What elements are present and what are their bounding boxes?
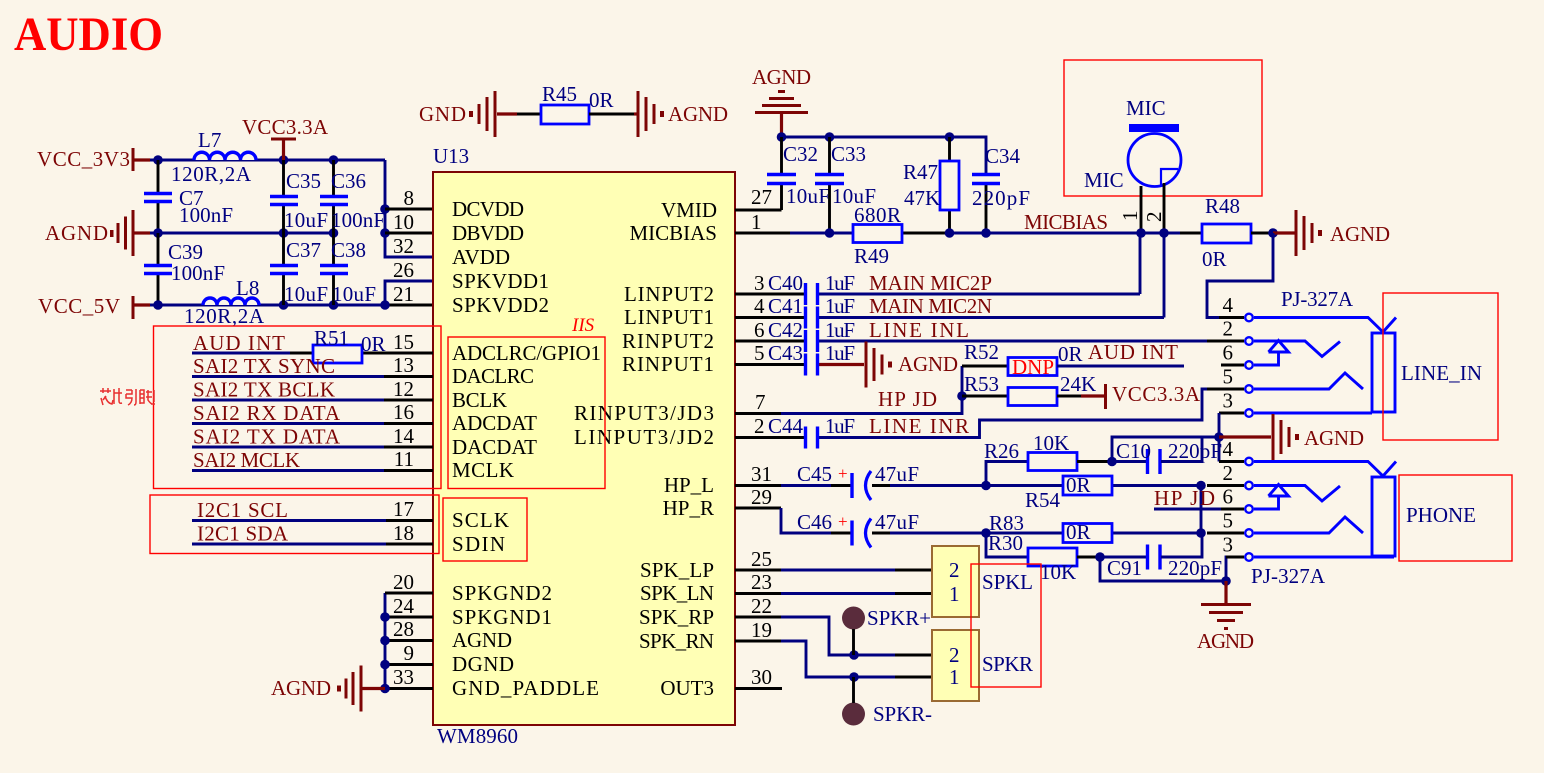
pin GND_PADDLE 33 [393,665,599,700]
pin HP_L 31 [664,462,772,497]
svg-text:0R: 0R [1058,342,1083,366]
svg-text:AGND: AGND [1197,629,1254,653]
capacitor C38 [320,233,376,306]
wire R54 node to R83 node [1200,486,1203,534]
node pin9 [380,660,390,670]
svg-text:ADCLRC/GPIO1: ADCLRC/GPIO1 [452,341,601,365]
pin MICBIAS 1 [629,210,761,245]
node MICBIAS mic1 [1136,228,1146,238]
wire R45 to AGND [589,113,634,116]
node top rail C36 [329,155,339,165]
I2C1 group red box [150,495,439,554]
svg-text:10K: 10K [1033,431,1069,455]
svg-text:2: 2 [754,414,765,438]
power port AGND left [45,210,150,256]
svg-text:SAI2 TX BCLK: SAI2 TX BCLK [193,378,335,402]
svg-text:24: 24 [393,594,415,618]
svg-text:RINPUT1: RINPUT1 [622,352,714,376]
node MICBIAS C33 [825,228,835,238]
wire pin 4 LINPUT1 row [735,233,1164,318]
pin AGND 28 [393,617,512,652]
svg-text:HP_R: HP_R [663,496,714,520]
pin SDIN 18 [393,521,505,556]
svg-text:1uF: 1uF [825,294,855,318]
capacitor C46 47uF [797,510,919,548]
svg-text:SPKR+: SPKR+ [867,606,931,630]
svg-text:LINPUT2: LINPUT2 [624,282,714,306]
svg-text:DCVDD: DCVDD [452,197,524,221]
capacitor C34 [972,144,1030,233]
svg-text:7: 7 [755,390,766,414]
wire pin 23 SPK_LN row [735,592,932,595]
power port AGND at C43 [866,342,958,388]
svg-text:AUD INT: AUD INT [193,331,285,355]
wire R48 node to LINE_IN pin4 [1207,233,1273,318]
node pin33 [380,684,390,694]
svg-text:VCC3.3A: VCC3.3A [1112,382,1201,406]
resistor R30 10K [986,531,1100,584]
SPK red box [971,564,1041,687]
capacitor C7 [144,160,233,233]
svg-text:C37: C37 [286,238,321,262]
wire R26 node up to AGND rail [1112,437,1219,462]
svg-text:R30: R30 [988,531,1023,555]
svg-text:AGND: AGND [1330,222,1390,246]
label HP_JD at PHONE pin6 [1154,486,1221,510]
svg-text:2: 2 [949,558,960,582]
svg-text:47uF: 47uF [875,462,919,486]
svg-text:R47: R47 [903,160,938,184]
pin VMID 27 [661,185,772,222]
jack pin 2 [1207,317,1253,345]
pin SPK_LP 25 [640,547,772,582]
wire SAI2_RX_DATA 16 [192,401,433,425]
pin LINPUT1 4 [624,294,765,329]
svg-text:R49: R49 [854,244,889,268]
svg-text:16: 16 [393,400,414,424]
node R54 out [1196,481,1206,491]
node vert pin10 [380,228,390,238]
resistor R51 0R [313,326,386,363]
svg-text:30: 30 [751,665,772,689]
resistor R83 0R [989,511,1112,544]
svg-text:R51: R51 [314,326,349,350]
svg-text:29: 29 [751,485,772,509]
power port AGND mid right [1219,414,1364,460]
svg-text:120R,2A: 120R,2A [171,162,252,186]
wire pin 5 RINPUT1 row [735,363,864,366]
wire pin 30 OUT3 stub [735,687,782,690]
resistor R52 0R DNP [962,340,1083,379]
svg-text:SAI2 RX DATA: SAI2 RX DATA [193,401,341,425]
node MICBIAS mic2 [1159,228,1169,238]
svg-text:31: 31 [751,462,772,486]
svg-text:22: 22 [751,594,772,618]
mic pin 2 [1142,183,1166,233]
svg-text:3: 3 [1223,533,1234,557]
svg-text:+: + [838,464,848,483]
svg-text:10: 10 [393,210,414,234]
svg-text:SPK_LN: SPK_LN [640,581,714,605]
node mid rail C35/C37 [279,228,289,238]
capacitor C42 [768,318,855,352]
inductor L8 [184,276,265,328]
svg-text:100nF: 100nF [171,261,225,285]
node C45 out [981,481,991,491]
svg-text:21: 21 [393,282,414,306]
svg-text:47uF: 47uF [875,510,919,534]
jack pin 6 [1221,341,1253,369]
pin LINPUT3/JD2 2 [574,414,765,449]
svg-text:1: 1 [949,665,960,689]
svg-text:AGND: AGND [1304,426,1364,450]
I2C pins red box on chip [443,498,527,561]
svg-text:WM8960: WM8960 [437,724,518,748]
svg-text:4: 4 [754,294,765,318]
wire pin 6 RINPUT2 row LINE_INL [735,340,1207,343]
svg-text:20: 20 [393,570,414,594]
resistor R26 10K [984,431,1112,486]
pin DGND 9 [404,641,515,676]
resistor R53 24K [962,372,1096,406]
svg-text:C32: C32 [783,142,818,166]
node top rail at L7 out [279,155,289,165]
pin RINPUT1 5 [622,341,765,376]
microphone MIC [1084,96,1181,192]
svg-text:LINE_IN: LINE_IN [1401,361,1482,385]
node MICBIAS R47 [945,228,955,238]
wire LINE_IN pin3 down to AGND node [1218,413,1221,462]
node rail C33 [825,132,835,142]
mic pin 1 [1118,186,1142,233]
svg-text:PJ-327A: PJ-327A [1281,287,1354,311]
capacitor C32 [767,137,830,210]
wire SAI2_MCLK 11 [192,448,433,472]
svg-text:HP_L: HP_L [664,473,714,497]
svg-text:AGND: AGND [752,65,811,89]
svg-text:U13: U13 [433,144,469,168]
svg-text:4: 4 [1223,437,1234,461]
svg-text:1uF: 1uF [825,341,855,365]
svg-text:AGND: AGND [668,102,728,126]
wire pin 19 SPK_RN row [735,641,932,677]
svg-text:32: 32 [393,234,414,258]
wire SAI2_TX_BCLK 12 [192,378,433,402]
svg-text:RINPUT2: RINPUT2 [622,329,714,353]
svg-text:VCC3.3A: VCC3.3A [242,115,329,139]
wire pin 8 stub [385,208,433,211]
svg-text:C33: C33 [831,142,866,166]
svg-text:5: 5 [1223,365,1234,389]
power port VCC_3V3 [37,147,150,171]
wire GND to R45 [517,113,541,116]
svg-text:DNP: DNP [1012,355,1054,379]
wire pin 27 VMID [735,209,782,212]
svg-text:1: 1 [751,210,762,234]
svg-text:10uF: 10uF [284,208,328,232]
svg-text:LINE INR: LINE INR [869,414,969,438]
svg-text:+: + [838,512,848,531]
wire pin 1 MICBIAS row [735,232,1202,235]
test point SPKR+ [842,606,931,655]
svg-text:IIS: IIS [571,315,595,336]
svg-text:28: 28 [393,617,414,641]
svg-text:C40: C40 [768,271,803,295]
node rail R47 [945,132,955,142]
svg-text:MIC: MIC [1084,168,1124,192]
pin SPK_RP 22 [639,594,772,629]
svg-text:AGND: AGND [898,352,958,376]
svg-text:11: 11 [394,447,414,471]
svg-text:C35: C35 [286,169,321,193]
pin DACLRC 13 [393,353,534,388]
pin DCVDD 8 [404,186,525,221]
jack LINE_IN symbol body [1254,318,1396,414]
svg-text:MAIN MIC2N: MAIN MIC2N [869,294,992,318]
svg-text:23: 23 [751,570,772,594]
connector LINE_IN jack PJ-327A [1281,287,1354,311]
resistor R45 0R [541,82,614,124]
svg-text:2: 2 [1223,317,1234,341]
wire SAI2_TX_DATA 14 [192,425,433,449]
svg-text:L8: L8 [236,276,259,300]
pin ADCDAT 16 [393,400,537,435]
node bottom rail C37 [279,300,289,310]
pin SPK_LN 23 [640,570,772,605]
node rail C32 [777,132,787,142]
svg-text:1uF: 1uF [825,271,855,295]
svg-text:BCLK: BCLK [452,388,507,412]
label 芯片引脚 chinese [100,388,155,405]
jack pin 4 [1219,293,1253,321]
svg-text:10K: 10K [1040,560,1076,584]
wire mid rail AGND [150,232,334,235]
svg-text:VCC_5V: VCC_5V [38,294,120,318]
pin DBVDD 10 [393,210,524,245]
node mid rail left [153,228,163,238]
wire vertical to pin 26 [385,281,433,305]
power port VCC3.3A at R53 [1081,382,1201,409]
pin LINPUT2 3 [624,271,765,306]
capacitor C33 [815,137,876,233]
svg-text:SAI2 TX DATA: SAI2 TX DATA [193,425,341,449]
pin RINPUT3/JD3 7 [574,390,766,425]
svg-text:6: 6 [754,318,765,342]
wire pin 7 HP_JD row [735,366,962,414]
node VCC_3V3 entry [153,155,163,165]
capacitor C37 [270,233,328,306]
svg-text:MICBIAS: MICBIAS [1024,210,1108,234]
jack pin 5 [1207,365,1253,393]
node SPKR minus [849,672,859,682]
svg-text:13: 13 [393,353,414,377]
svg-text:C41: C41 [768,294,803,318]
power port AGND bottom (earth) [1197,581,1254,653]
pin SPKGND2 20 [393,570,552,605]
svg-text:R54: R54 [1025,488,1061,512]
svg-text:R45: R45 [542,82,577,106]
svg-text:GND: GND [419,102,466,126]
svg-text:R26: R26 [984,439,1019,463]
capacitor C10 220pF [1112,437,1222,474]
resistor R54 0R [1025,473,1112,512]
wire pin 2 LINPUT3 row LINE_INR [735,389,1207,438]
svg-text:HP JD: HP JD [1154,486,1215,510]
svg-text:SPK_RP: SPK_RP [639,605,714,629]
wire PHONE pin3 to AGND node [1226,557,1244,581]
svg-text:VCC_3V3: VCC_3V3 [37,147,130,171]
svg-text:SPKVDD1: SPKVDD1 [452,269,549,293]
svg-text:SPK_LP: SPK_LP [640,558,714,582]
pin RINPUT2 6 [622,318,765,353]
svg-text:R52: R52 [964,340,999,364]
node R53 junction [957,391,967,401]
wire pin 31 HP_L row [735,484,1201,487]
svg-text:19: 19 [751,618,772,642]
svg-text:3: 3 [754,271,765,295]
node R83 out [1196,528,1206,538]
svg-text:DACLRC: DACLRC [452,364,534,388]
node bottom rail corner [380,300,390,310]
svg-text:C43: C43 [768,341,803,365]
svg-text:I2C1 SCL: I2C1 SCL [197,498,288,522]
jack pin 6 phone [1221,485,1253,513]
connector SPKL [932,546,1033,617]
pin MCLK 11 [394,447,514,482]
svg-text:9: 9 [404,641,415,665]
LINE_IN red box [1383,293,1498,440]
op-amp U13 WM8960 chip body [433,144,735,748]
svg-text:6: 6 [1223,341,1234,365]
svg-text:12: 12 [393,377,414,401]
svg-text:2: 2 [949,643,960,667]
svg-text:1uF: 1uF [825,414,855,438]
svg-text:C36: C36 [331,169,366,193]
svg-text:680R: 680R [854,203,901,227]
wire AUD_INT [1057,365,1184,368]
svg-text:8: 8 [404,186,415,210]
svg-text:SPKGND1: SPKGND1 [452,605,552,629]
wire pin 24 stub [385,616,433,619]
capacitor C35 [270,160,328,233]
svg-text:26: 26 [393,258,414,282]
node vert pin8 [380,204,390,214]
svg-text:SAI2 TX SYNC: SAI2 TX SYNC [193,354,335,378]
wire pin 9 stub [385,663,433,666]
wire pin 22 SPK_RP row [735,617,932,655]
pin DACDAT 14 [393,424,537,459]
svg-text:120R,2A: 120R,2A [184,304,265,328]
svg-text:220pF: 220pF [972,186,1030,210]
svg-text:DACDAT: DACDAT [452,435,537,459]
node C46 out [981,528,991,538]
svg-text:SDIN: SDIN [452,532,505,556]
svg-text:C91: C91 [1107,556,1142,580]
wire pin 3 LINPUT2 row [735,233,1140,294]
node pin28 [380,636,390,646]
PHONE red box [1399,475,1512,561]
svg-text:HP JD: HP JD [878,387,937,411]
svg-text:C42: C42 [768,318,803,342]
svg-text:C38: C38 [331,238,366,262]
capacitor C45 47uF [797,462,919,500]
svg-text:220pF: 220pF [1168,439,1222,463]
capacitor C40 [768,271,855,305]
svg-text:SAI2 MCLK: SAI2 MCLK [193,448,300,472]
node MICBIAS C34 [981,228,991,238]
pin HP_R 29 [663,485,772,520]
resistor R47 47K [903,137,959,233]
svg-text:1uF: 1uF [825,318,855,342]
capacitor C43 [768,341,855,376]
svg-text:6: 6 [1223,485,1234,509]
svg-text:0R: 0R [1202,247,1227,271]
svg-text:R53: R53 [964,372,999,396]
jack pin 4 phone [1219,437,1253,465]
power port AGND bottom left [271,666,385,712]
power port GND [419,91,517,137]
svg-text:C44: C44 [768,414,804,438]
wire pin 29 HP_R row [735,508,1201,533]
resistor R48 0R [1202,194,1251,271]
svg-text:18: 18 [393,521,414,545]
svg-text:PJ-327A: PJ-327A [1251,564,1326,588]
svg-text:PHONE: PHONE [1406,503,1476,527]
svg-text:L7: L7 [198,128,221,152]
svg-text:SPKR: SPKR [982,652,1033,676]
svg-text:C34: C34 [985,144,1021,168]
node mid rail C36/C38 [329,228,339,238]
svg-text:LINE INL: LINE INL [869,318,969,342]
svg-text:DBVDD: DBVDD [452,221,524,245]
svg-text:27: 27 [751,185,772,209]
wire pin 33 stub [385,687,433,690]
svg-text:10uF: 10uF [284,282,328,306]
svg-text:R48: R48 [1205,194,1240,218]
svg-text:100nF: 100nF [179,203,233,227]
svg-text:0R: 0R [1066,473,1091,497]
MIC red box [1064,60,1262,196]
wire pin 21 stub [385,304,433,307]
svg-text:VMID: VMID [661,198,717,222]
node AGND mid [1214,432,1224,442]
svg-text:1: 1 [949,582,960,606]
svg-text:0R: 0R [589,88,614,112]
wire pin 28 stub [385,639,433,642]
wire I2C1_SCL 17 [192,498,433,522]
power port VCC_5V [38,294,150,319]
jack pin 3 phone [1223,533,1253,561]
svg-text:SPKVDD2: SPKVDD2 [452,293,549,317]
capacitor C41 [768,294,855,329]
svg-text:OUT3: OUT3 [660,676,714,700]
wire AUD_INT row [192,352,433,355]
wire AGND rail above C32-C34 [782,137,987,173]
svg-text:1: 1 [1118,211,1142,222]
svg-text:AUDIO: AUDIO [14,8,163,61]
wire R30 node loop to AGND [1100,557,1226,581]
svg-text:MICBIAS: MICBIAS [629,221,717,245]
wire pins 20/24/28/9/33 vertical bus [384,593,387,689]
svg-text:SCLK: SCLK [452,508,509,532]
pin AVDD 32 [393,234,510,269]
connector SPKR [932,630,1033,701]
svg-text:0R: 0R [361,332,386,356]
capacitor C91 220pF [1100,533,1222,580]
svg-text:33: 33 [393,665,414,689]
svg-text:MAIN MIC2P: MAIN MIC2P [869,271,992,295]
svg-text:15: 15 [393,330,414,354]
